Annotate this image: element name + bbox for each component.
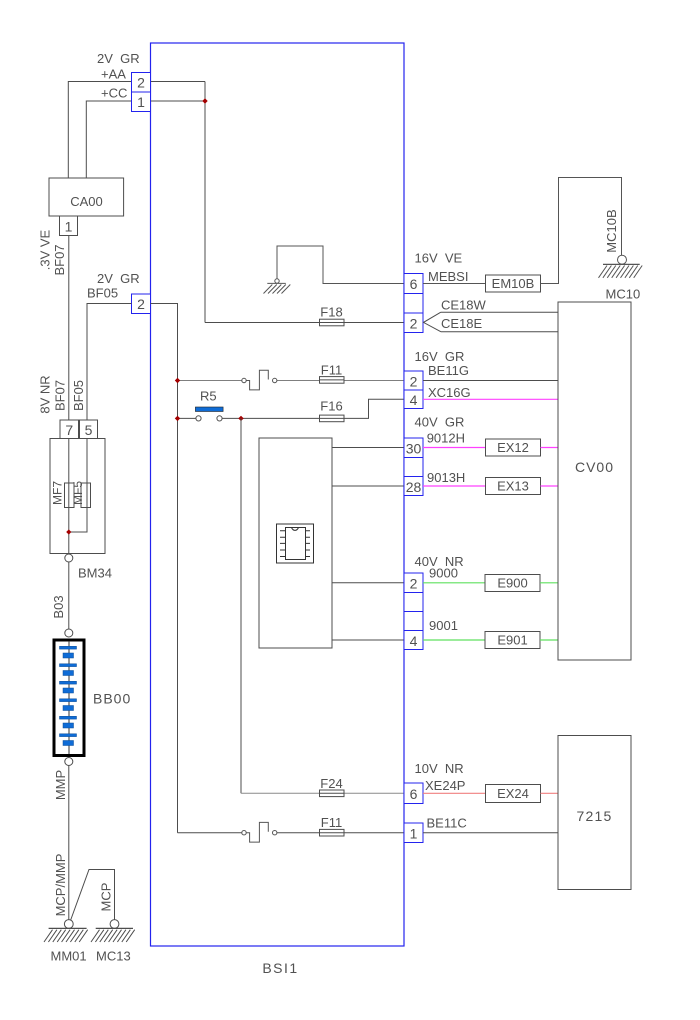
- svg-text:1: 1: [410, 825, 418, 841]
- connector label EM10B: [486, 275, 541, 292]
- wire F24 run: [241, 792, 404, 794]
- svg-text:BE11C: BE11C: [427, 816, 467, 831]
- wire down to F24: [240, 418, 242, 793]
- fuse F24: [320, 776, 345, 797]
- svg-text:EX12: EX12: [497, 440, 529, 455]
- wire EX13 to CV00: [541, 485, 559, 487]
- svg-text:2: 2: [410, 315, 418, 331]
- connector circle BB00 top: [65, 629, 73, 637]
- svg-text:9000: 9000: [429, 566, 458, 581]
- svg-text:4: 4: [410, 633, 418, 649]
- wire EM10B to MC10B ground: [541, 178, 622, 284]
- svg-text:BM34: BM34: [78, 566, 112, 581]
- label BF05: [87, 286, 118, 301]
- svg-text:F18: F18: [320, 304, 342, 319]
- svg-text:R5: R5: [200, 389, 217, 404]
- wire BE11G to CV00: [423, 380, 558, 382]
- label 8V NR (rotated): [38, 375, 53, 413]
- svg-text:CE18E: CE18E: [441, 316, 483, 331]
- BSI empty pin box: [404, 294, 423, 314]
- label CE18W: [441, 298, 487, 313]
- label 40V NR: [415, 554, 464, 569]
- wire 9012H to EX12: [423, 447, 486, 449]
- wire pin 5 through fuse MF5: [69, 439, 87, 533]
- svg-text:CV00: CV00: [575, 459, 614, 475]
- label 16V GR: [415, 349, 465, 364]
- svg-text:F16: F16: [320, 399, 342, 414]
- label MC10B (rotated): [604, 209, 619, 252]
- fuse F18: [320, 304, 345, 326]
- svg-text:BF05: BF05: [87, 286, 118, 301]
- label 9013H: [427, 470, 465, 485]
- wire R5/F16 run: [178, 399, 405, 418]
- label MCP (rotated): [99, 883, 114, 912]
- label 16V VE: [415, 251, 463, 266]
- wire switch 2 run: [178, 832, 405, 834]
- svg-text:MMP: MMP: [53, 770, 68, 800]
- fuse box pin 5: [80, 420, 98, 439]
- fuse F11 (lower): [320, 815, 345, 836]
- fuse F16: [320, 399, 345, 422]
- svg-text:2V GR: 2V GR: [97, 271, 140, 286]
- label MEBSI: [428, 269, 468, 284]
- svg-text:MF7: MF7: [51, 481, 65, 505]
- wire BF07 from CA00 pin 1 down to fuse pin 7: [68, 236, 70, 421]
- wire EX24 to 7215: [541, 792, 559, 794]
- svg-text:MCP/MMP: MCP/MMP: [53, 854, 68, 917]
- label 40V GR: [415, 415, 465, 430]
- label 2V GR (BF05): [97, 271, 140, 286]
- svg-text:XC16G: XC16G: [428, 385, 471, 400]
- svg-text:7215: 7215: [577, 808, 613, 824]
- label MCP/MMP (rotated): [53, 854, 68, 917]
- svg-text:30: 30: [406, 440, 422, 456]
- svg-text:MC13: MC13: [96, 949, 131, 964]
- wire +AA from pin 2 to junction column: [151, 82, 206, 323]
- BSI pin 2 (BE11G): [404, 371, 423, 390]
- ECU box CV00: [558, 302, 631, 660]
- microcontroller chip: [277, 524, 314, 563]
- connector circle BB00 bottom: [65, 758, 73, 766]
- ground MM01: [44, 920, 88, 964]
- wire 9001 to E901: [423, 639, 485, 641]
- label 2V GR (top): [97, 51, 140, 66]
- label MF5 (rotated): [71, 481, 85, 505]
- label CE18E: [441, 316, 483, 331]
- wire BF05 into BSI: [151, 304, 178, 833]
- wire module to pin 28: [332, 485, 404, 487]
- label +AA: [101, 67, 126, 82]
- svg-text:1: 1: [65, 219, 73, 235]
- label 10V NR: [415, 761, 464, 776]
- svg-text:CE18W: CE18W: [441, 298, 487, 313]
- wire +AA to CA00: [68, 82, 131, 179]
- ground MC13: [91, 920, 135, 964]
- connector label EX24: [486, 785, 541, 803]
- label BF07 (rotated, fuse): [53, 380, 68, 411]
- connector circle BM34: [65, 554, 73, 562]
- BSI1 ECU box: [151, 43, 405, 946]
- svg-text:4: 4: [410, 392, 418, 408]
- wire BE11C to 7215: [423, 832, 558, 834]
- wire B03: [68, 562, 70, 629]
- svg-text:8V NR: 8V NR: [38, 375, 53, 413]
- svg-text:BB00: BB00: [93, 691, 131, 707]
- connector label E901: [485, 632, 540, 649]
- svg-text:MCP: MCP: [99, 883, 114, 912]
- svg-text:9001: 9001: [429, 618, 458, 633]
- junction node in fuse box: [66, 529, 71, 534]
- svg-text:7: 7: [65, 422, 73, 438]
- wire E900 to CV00: [540, 582, 558, 584]
- wire pin 7 through fuse MF7: [68, 439, 70, 554]
- BSI1 label: [262, 960, 298, 976]
- svg-text:BSI1: BSI1: [262, 960, 298, 976]
- BSI pin 28: [404, 477, 423, 496]
- wire XC16G to CV00: [423, 398, 558, 400]
- svg-text:2: 2: [137, 75, 145, 91]
- junction node BF05/switch1: [175, 378, 180, 383]
- BSI empty pin box: [404, 458, 423, 477]
- svg-text:F11: F11: [321, 815, 342, 830]
- svg-text:F11: F11: [321, 362, 342, 377]
- svg-text:EX24: EX24: [497, 786, 529, 801]
- wire E901 to CV00: [540, 639, 558, 641]
- svg-text:MC10B: MC10B: [604, 209, 619, 252]
- contact under R5: [196, 416, 222, 421]
- fuse box pin 7: [60, 420, 79, 439]
- label .3V VE (rotated): [38, 229, 53, 270]
- svg-text:10V NR: 10V NR: [415, 761, 464, 776]
- wire module to pin 2 (9000): [332, 582, 404, 584]
- wire MMP to ground: [68, 766, 70, 920]
- svg-text:EX13: EX13: [497, 479, 529, 494]
- wire 9000 to E900: [423, 582, 485, 584]
- BSI pin 2 (+AA): [132, 73, 151, 93]
- label BM34: [78, 566, 112, 581]
- BSI pin 2 (CE18): [404, 313, 423, 333]
- wire +CC from pin 1 to junction: [151, 100, 206, 102]
- svg-text:6: 6: [410, 276, 418, 292]
- junction node at BF05 column: [175, 416, 180, 421]
- wire module to pin 4 (9001): [332, 639, 404, 641]
- svg-text:XE24P: XE24P: [425, 778, 465, 793]
- svg-text:.3V VE: .3V VE: [38, 229, 53, 270]
- svg-text:BE11G: BE11G: [428, 363, 469, 378]
- svg-text:2V GR: 2V GR: [97, 51, 140, 66]
- wire MCP to MC13: [71, 870, 115, 921]
- svg-text:MM01: MM01: [51, 949, 87, 964]
- wire switch 1 run: [178, 380, 405, 382]
- wires CE18W / CE18E with arrow: [424, 312, 559, 332]
- label 9012H: [427, 431, 465, 446]
- svg-text:MEBSI: MEBSI: [428, 269, 468, 284]
- ground MC10: [599, 255, 643, 301]
- wire MEBSI to EM10B: [423, 283, 486, 285]
- svg-text:MF5: MF5: [71, 481, 85, 505]
- connector label E900: [485, 575, 540, 592]
- BSI pin 6 (MEBSI): [404, 274, 423, 294]
- wire BF05 to fuse pin 5: [87, 304, 132, 421]
- BSI empty pin box: [404, 593, 423, 612]
- connector label EX12: [486, 439, 541, 456]
- svg-text:5: 5: [85, 422, 93, 438]
- svg-text:9012H: 9012H: [427, 431, 465, 446]
- BSI pin 2 (BF05): [132, 294, 151, 314]
- label 9000: [429, 566, 458, 581]
- CA00 pin 1: [60, 216, 78, 236]
- label B03 (rotated): [51, 595, 66, 618]
- BSI pin 2 (9000): [404, 573, 423, 593]
- wire module to pin 30: [332, 447, 404, 449]
- BSI pin 30: [404, 438, 423, 458]
- battery BB00: [54, 640, 84, 756]
- svg-text:B03: B03: [51, 595, 66, 618]
- ECU box 7215: [558, 736, 631, 890]
- svg-text:2: 2: [137, 296, 145, 312]
- BSI empty pin box: [404, 612, 423, 631]
- svg-text:+AA: +AA: [101, 67, 126, 82]
- label BE11C: [427, 816, 467, 831]
- svg-text:2: 2: [410, 373, 418, 389]
- fuse box BM34: [50, 439, 105, 554]
- svg-text:16V GR: 16V GR: [415, 349, 465, 364]
- svg-text:MC10: MC10: [606, 287, 641, 302]
- svg-text:BF07: BF07: [52, 244, 67, 275]
- switch contact S2: [242, 822, 277, 842]
- wire +CC to CA00: [86, 101, 131, 178]
- switch contact S1: [242, 370, 277, 390]
- fuse F11 (upper): [320, 362, 345, 383]
- BSI pin 6 (XE24P): [404, 783, 423, 804]
- svg-text:2: 2: [410, 575, 418, 591]
- fuse MF5 symbol: [81, 483, 91, 508]
- connector label EX13: [486, 478, 541, 495]
- BSI pin 1 (+CC): [132, 92, 151, 112]
- label BF05 (rotated, fuse): [71, 380, 86, 411]
- label XE24P: [425, 778, 465, 793]
- label MF7 (rotated): [51, 481, 65, 505]
- svg-text:6: 6: [410, 786, 418, 802]
- wire F18 run: [205, 322, 404, 324]
- svg-text:16V VE: 16V VE: [415, 251, 463, 266]
- label XC16G: [428, 385, 471, 400]
- label 9001: [429, 618, 458, 633]
- svg-text:9013H: 9013H: [427, 470, 465, 485]
- BSI pin 4 (XC16G): [404, 390, 423, 409]
- label MMP (rotated): [53, 770, 68, 800]
- svg-text:E901: E901: [497, 633, 527, 648]
- label BF07 (rotated): [52, 244, 67, 275]
- svg-text:1: 1: [137, 94, 145, 110]
- BSI pin 1 (BE11C): [404, 823, 423, 843]
- svg-text:40V GR: 40V GR: [415, 415, 465, 430]
- svg-text:+CC: +CC: [101, 86, 127, 101]
- label BB00: [93, 691, 131, 707]
- wire EX12 to CV00: [541, 447, 559, 449]
- junction node F16/F24: [238, 416, 243, 421]
- label +CC: [101, 86, 127, 101]
- svg-text:E900: E900: [497, 576, 527, 591]
- svg-text:EM10B: EM10B: [492, 276, 535, 291]
- label BE11G: [428, 363, 469, 378]
- battery unit CA00: [49, 178, 124, 216]
- internal module box: [259, 438, 332, 648]
- resistor R5: [195, 389, 223, 412]
- junction node +CC/+AA: [202, 98, 207, 103]
- wire XE24P to EX24: [423, 792, 486, 794]
- svg-text:F24: F24: [320, 776, 342, 791]
- fuse MF7 symbol: [65, 483, 75, 508]
- svg-text:CA00: CA00: [70, 194, 103, 209]
- svg-text:BF05: BF05: [71, 380, 86, 411]
- ground inside BSI: [264, 246, 405, 294]
- BSI pin 4 (9001): [404, 631, 423, 650]
- svg-text:28: 28: [406, 479, 422, 495]
- wire 9013H to EX13: [423, 485, 486, 487]
- svg-text:BF07: BF07: [53, 380, 68, 411]
